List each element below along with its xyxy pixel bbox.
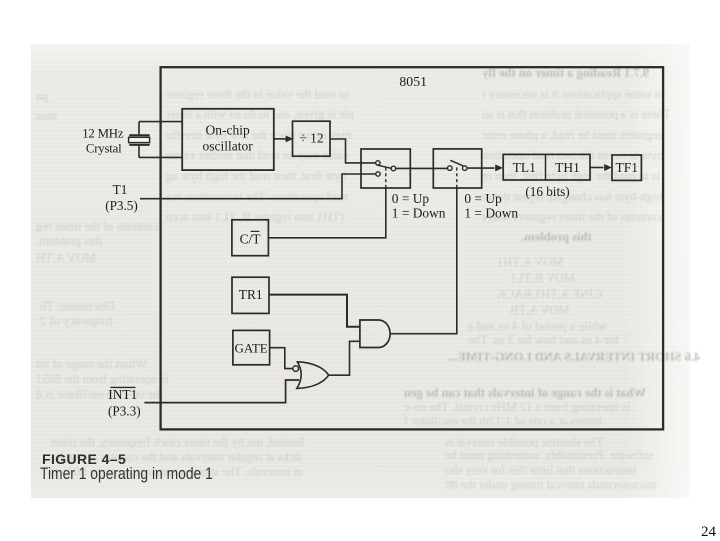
svg-text:GATE: GATE [234, 340, 267, 355]
svg-text:T1: T1 [113, 182, 128, 197]
svg-text:oscillator: oscillator [202, 139, 253, 154]
svg-text:1 = Down: 1 = Down [464, 205, 518, 220]
svg-text:TL1: TL1 [513, 160, 536, 175]
svg-text:TF1: TF1 [616, 160, 639, 175]
svg-text:12 MHz: 12 MHz [82, 126, 124, 140]
svg-text:C/T: C/T [240, 232, 261, 247]
svg-text:TH1: TH1 [555, 160, 580, 175]
svg-text:(P3.5): (P3.5) [105, 198, 138, 213]
svg-text:On-chip: On-chip [205, 123, 249, 138]
svg-text:(16 bits): (16 bits) [525, 184, 569, 199]
svg-text:÷ 12: ÷ 12 [299, 131, 323, 146]
svg-text:0 = Up: 0 = Up [464, 191, 502, 206]
svg-text:1 = Down: 1 = Down [392, 205, 446, 220]
svg-text:TR1: TR1 [239, 287, 263, 302]
svg-text:0 = Up: 0 = Up [392, 191, 430, 206]
svg-text:INT1: INT1 [108, 387, 137, 402]
svg-text:8051: 8051 [399, 74, 427, 89]
svg-text:Crystal: Crystal [86, 142, 122, 156]
svg-text:(P3.3): (P3.3) [108, 403, 141, 418]
